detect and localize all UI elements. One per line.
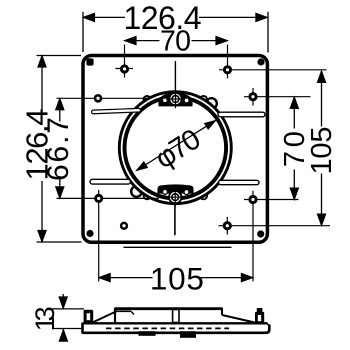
svg-text:70: 70 <box>160 26 191 58</box>
svg-text:105: 105 <box>150 260 204 296</box>
svg-text:66.7: 66.7 <box>42 117 75 181</box>
svg-text:13: 13 <box>30 306 60 331</box>
svg-text:105: 105 <box>306 127 338 175</box>
